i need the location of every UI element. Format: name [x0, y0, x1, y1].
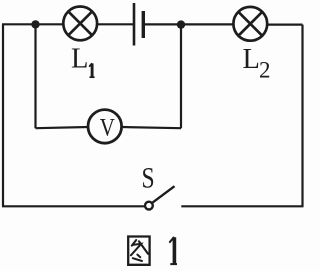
wire top segment from lamp L2 to right corner: [267, 24, 303, 26]
wire voltmeter branch right vertical: [180, 24, 182, 128]
voltmeter U1: [88, 110, 122, 144]
wire left vertical: [2, 24, 4, 206]
svg-text:L: L: [71, 44, 88, 75]
wire voltmeter branch horizontal right of meter: [122, 127, 182, 128]
wire right vertical: [301, 25, 303, 207]
wire voltmeter branch left vertical: [34, 24, 36, 128]
label L1: [71, 44, 95, 78]
label L2: [243, 44, 271, 83]
lamp L2: [233, 7, 267, 41]
wire top segment from left corner to lamp L1: [2, 23, 63, 25]
wire top segment from battery through node B to lamp L2: [144, 23, 234, 25]
node B junction dot: [177, 20, 185, 28]
wire top segment from lamp L1 to battery: [97, 23, 134, 25]
svg-text:L: L: [243, 44, 260, 75]
svg-text:2: 2: [259, 58, 271, 83]
svg-text:S: S: [141, 161, 154, 194]
wire bottom left segment to switch: [2, 205, 145, 207]
battery cell short plate: [142, 11, 145, 38]
caption: figure number 1: [170, 237, 177, 264]
switch S: [145, 186, 175, 209]
node A junction dot: [31, 20, 39, 28]
battery cell long plate: [133, 3, 136, 46]
wire bottom right segment from switch to right corner: [181, 205, 303, 207]
lamp L1: [63, 7, 97, 41]
wire voltmeter branch horizontal left of meter: [36, 127, 89, 128]
caption: character 图 drawn as strokes: [128, 237, 149, 265]
svg-text:V: V: [100, 114, 115, 142]
